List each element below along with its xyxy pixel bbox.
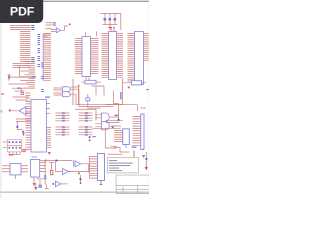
blue dot mid	[89, 136, 91, 138]
cap bank a	[45, 161, 54, 171]
connector J3 spine	[42, 34, 44, 81]
wire top right of U6	[71, 85, 80, 88]
red dot mid	[89, 140, 91, 142]
buffer U10	[63, 169, 69, 175]
gate U6 inputs	[54, 88, 63, 95]
wire over RN4	[76, 109, 97, 120]
wire right vert	[145, 152, 147, 168]
ic U4 body	[109, 32, 117, 80]
net label RN3	[93, 136, 96, 137]
page left border	[0, 1, 2, 199]
arrow U15 left	[9, 110, 11, 113]
title text box	[107, 158, 138, 173]
gate U6	[63, 87, 71, 97]
ic U14 body	[98, 154, 105, 181]
blue sq on wire	[112, 126, 114, 128]
wire stub left	[20, 89, 22, 93]
ic U5 body	[135, 32, 144, 85]
inverter U15	[19, 107, 26, 115]
blue net mark	[32, 76, 37, 77]
res pack RN6	[132, 81, 142, 85]
wire RN6 left	[123, 79, 147, 86]
wire corner down	[105, 129, 116, 149]
blue box bottom	[39, 185, 42, 188]
blue wire under U16	[32, 156, 38, 158]
resistor pack RN4	[79, 112, 93, 122]
small red box left	[21, 92, 23, 94]
power feed wire	[120, 14, 122, 31]
page top border	[1, 0, 150, 2]
wire to buffer U2	[46, 23, 57, 32]
net label under J4	[132, 147, 137, 148]
connector J4 body	[141, 114, 144, 150]
wire U2 output	[61, 26, 68, 30]
wire S below U8	[108, 147, 130, 154]
wire across mid	[91, 86, 104, 96]
ic U3 body	[82, 37, 91, 77]
cap C1	[104, 18, 107, 20]
net label right edge	[146, 89, 149, 90]
junction dot	[128, 87, 130, 89]
wire row y128	[93, 117, 121, 128]
buffer U9	[75, 161, 81, 167]
wire stub u8r	[133, 151, 135, 158]
ic U12 body	[10, 164, 21, 175]
vertical net wire	[106, 85, 123, 105]
ic U5 left pins	[128, 34, 135, 82]
wire RN1 sides	[82, 77, 101, 83]
arrow gnd left	[34, 187, 37, 190]
red arrow right	[145, 167, 148, 170]
blue dot x80	[80, 178, 82, 180]
ic U8 body	[123, 129, 130, 145]
connector J3 pins	[44, 34, 52, 81]
ic U13 body	[31, 160, 40, 178]
page bottom border	[1, 191, 150, 193]
ic U14 pins	[90, 157, 98, 179]
wire U10	[56, 161, 89, 172]
net labels J3	[38, 34, 41, 67]
net label top	[53, 22, 56, 23]
tiny red text left edge	[1, 94, 4, 95]
junction blue	[118, 119, 120, 121]
PDF badge	[0, 0, 43, 23]
net labels at J1	[31, 25, 34, 62]
connector J1 pins	[10, 26, 31, 68]
ic U12 pins	[2, 166, 28, 179]
buffer U11	[56, 181, 62, 187]
ic U3 left pins	[75, 39, 82, 74]
cap C3	[114, 18, 117, 20]
page right border	[148, 1, 150, 199]
cap legs	[105, 14, 115, 25]
dot U2 out	[69, 24, 71, 26]
net labels mid	[41, 63, 44, 105]
wire Cx	[37, 170, 46, 185]
wire under U2	[43, 34, 51, 36]
ic U3 right pins	[91, 39, 99, 74]
gate U7	[102, 113, 110, 130]
pin header J5	[3, 140, 22, 155]
tiny red text above U12	[9, 155, 14, 156]
wire U9 out	[81, 164, 89, 173]
ic U14 bottom stub	[100, 181, 103, 186]
ic U16 right pins	[47, 104, 52, 148]
bus wire long	[74, 89, 138, 108]
arrow right small	[142, 155, 145, 158]
title block table	[116, 175, 149, 193]
connector J2 pins	[21, 62, 36, 99]
bus drop right	[138, 105, 147, 111]
red square J5 right	[23, 149, 25, 151]
cap Cx	[44, 175, 46, 180]
blue dot U16	[22, 131, 24, 133]
wire mid-left pair	[16, 119, 31, 130]
red arrow U16 br	[48, 152, 51, 155]
cap mid legs	[87, 94, 89, 108]
red arrow U16	[22, 133, 25, 136]
junction on wire	[18, 88, 21, 89]
power rail bottom	[103, 24, 118, 26]
red dot D1	[78, 173, 80, 175]
ic U8 bottom stub	[125, 145, 127, 149]
vert red x78 low	[80, 175, 82, 184]
buffer U2	[56, 28, 60, 33]
resistor pack RN3	[56, 126, 70, 136]
ic U16 left pins	[26, 102, 32, 150]
bus bottom	[31, 160, 73, 162]
net label above U16	[45, 97, 50, 98]
ic U8 left pins	[114, 131, 123, 142]
red dot x80	[80, 182, 82, 184]
resistor pack RN5	[79, 126, 93, 136]
gate U7 inputs	[95, 115, 101, 127]
pull-up pins top	[46, 23, 53, 25]
res pack RN1	[85, 80, 96, 84]
wire U15	[11, 109, 31, 114]
wire pair right	[106, 120, 123, 122]
power rail top	[101, 13, 121, 15]
connector J4 pins	[133, 117, 141, 146]
red dot U11	[53, 183, 55, 185]
wire right of U13	[45, 159, 49, 189]
ground sym	[108, 25, 112, 29]
res Rx	[50, 170, 53, 175]
svg-text:PDF: PDF	[10, 5, 35, 19]
resistor pack RN2	[56, 112, 70, 122]
stub above U4	[110, 27, 115, 32]
junction bus	[56, 160, 58, 162]
ic U4 right pins	[117, 34, 124, 78]
stubs above U3	[86, 32, 97, 37]
cap C2	[109, 18, 112, 20]
small part left edge	[8, 75, 11, 81]
diode bar	[73, 161, 75, 167]
ic U16 body	[31, 100, 47, 153]
wire U11	[61, 183, 68, 185]
wire left 2	[9, 84, 36, 100]
small cap mid	[86, 98, 90, 101]
ic U13 pins	[34, 163, 46, 183]
wire long left	[8, 66, 34, 77]
gate U6 outputs	[71, 89, 75, 94]
blue dot right	[145, 158, 147, 160]
arrow under U13	[33, 183, 36, 186]
gray tick left	[1, 110, 3, 113]
wire drop a	[73, 79, 79, 106]
junction blue ml	[16, 126, 18, 128]
gate U7 outputs	[110, 117, 121, 126]
net label U7 out	[115, 115, 119, 116]
ic U4 left pins	[102, 34, 109, 78]
vert net label	[120, 92, 121, 100]
wire right mid	[114, 91, 119, 121]
ic U5 right pins	[144, 34, 149, 61]
